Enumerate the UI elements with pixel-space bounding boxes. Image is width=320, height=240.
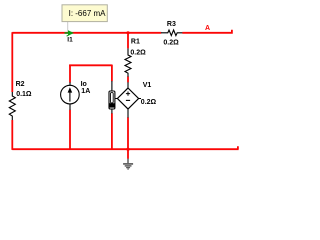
- svg-text:V1: V1: [143, 82, 152, 89]
- wire Io branch upper vertical: [69, 65, 71, 83]
- current probe arrow I1: [65, 30, 75, 36]
- svg-text:0.2Ω: 0.2Ω: [130, 50, 146, 57]
- resistor R2: [9, 92, 15, 120]
- probe connector line: [67, 22, 69, 32]
- svg-text:0.2Ω: 0.2Ω: [163, 39, 179, 46]
- controlled source V1 (diamond): [115, 82, 141, 117]
- svg-text:R1: R1: [131, 39, 140, 46]
- wire main vertical R1 to V1: [127, 77, 129, 83]
- wire main vertical top (top net to R1): [127, 33, 129, 48]
- svg-text:0.1Ω: 0.1Ω: [16, 91, 32, 98]
- wire Io branch lower vertical: [69, 110, 71, 150]
- wire sense branch upper vertical: [111, 65, 113, 82]
- wire Io branch top loop horizontal: [69, 64, 112, 66]
- svg-text:Io: Io: [81, 81, 87, 88]
- wire top horizontal net: [12, 32, 161, 34]
- wire left vertical lower (R2 to bottom): [11, 120, 13, 150]
- resistor R3: [161, 30, 182, 36]
- svg-text:I1: I1: [67, 36, 73, 43]
- junction bottom net / ground: [126, 148, 129, 151]
- wire bottom horizontal net: [12, 146, 238, 149]
- junction top net / R1: [126, 31, 129, 34]
- svg-text:R2: R2: [16, 81, 25, 88]
- ground: [123, 159, 133, 169]
- resistor R1: [125, 48, 131, 76]
- svg-text:0.2Ω: 0.2Ω: [141, 99, 157, 106]
- wire main vertical V1 to ground: [127, 117, 129, 158]
- svg-text:1A: 1A: [81, 88, 90, 95]
- wire sense branch lower vertical: [111, 113, 113, 150]
- svg-text:I: -667 mA: I: -667 mA: [69, 9, 107, 18]
- svg-text:R3: R3: [167, 21, 176, 28]
- current source Io: [61, 82, 80, 110]
- probe tooltip I: -667 mA: [62, 5, 107, 22]
- svg-text:A: A: [205, 25, 210, 32]
- wire from R3 to node A end: [182, 30, 232, 34]
- sense element of CCVS V1 (input branch): [109, 81, 115, 114]
- wire left vertical upper (to R2): [11, 32, 13, 92]
